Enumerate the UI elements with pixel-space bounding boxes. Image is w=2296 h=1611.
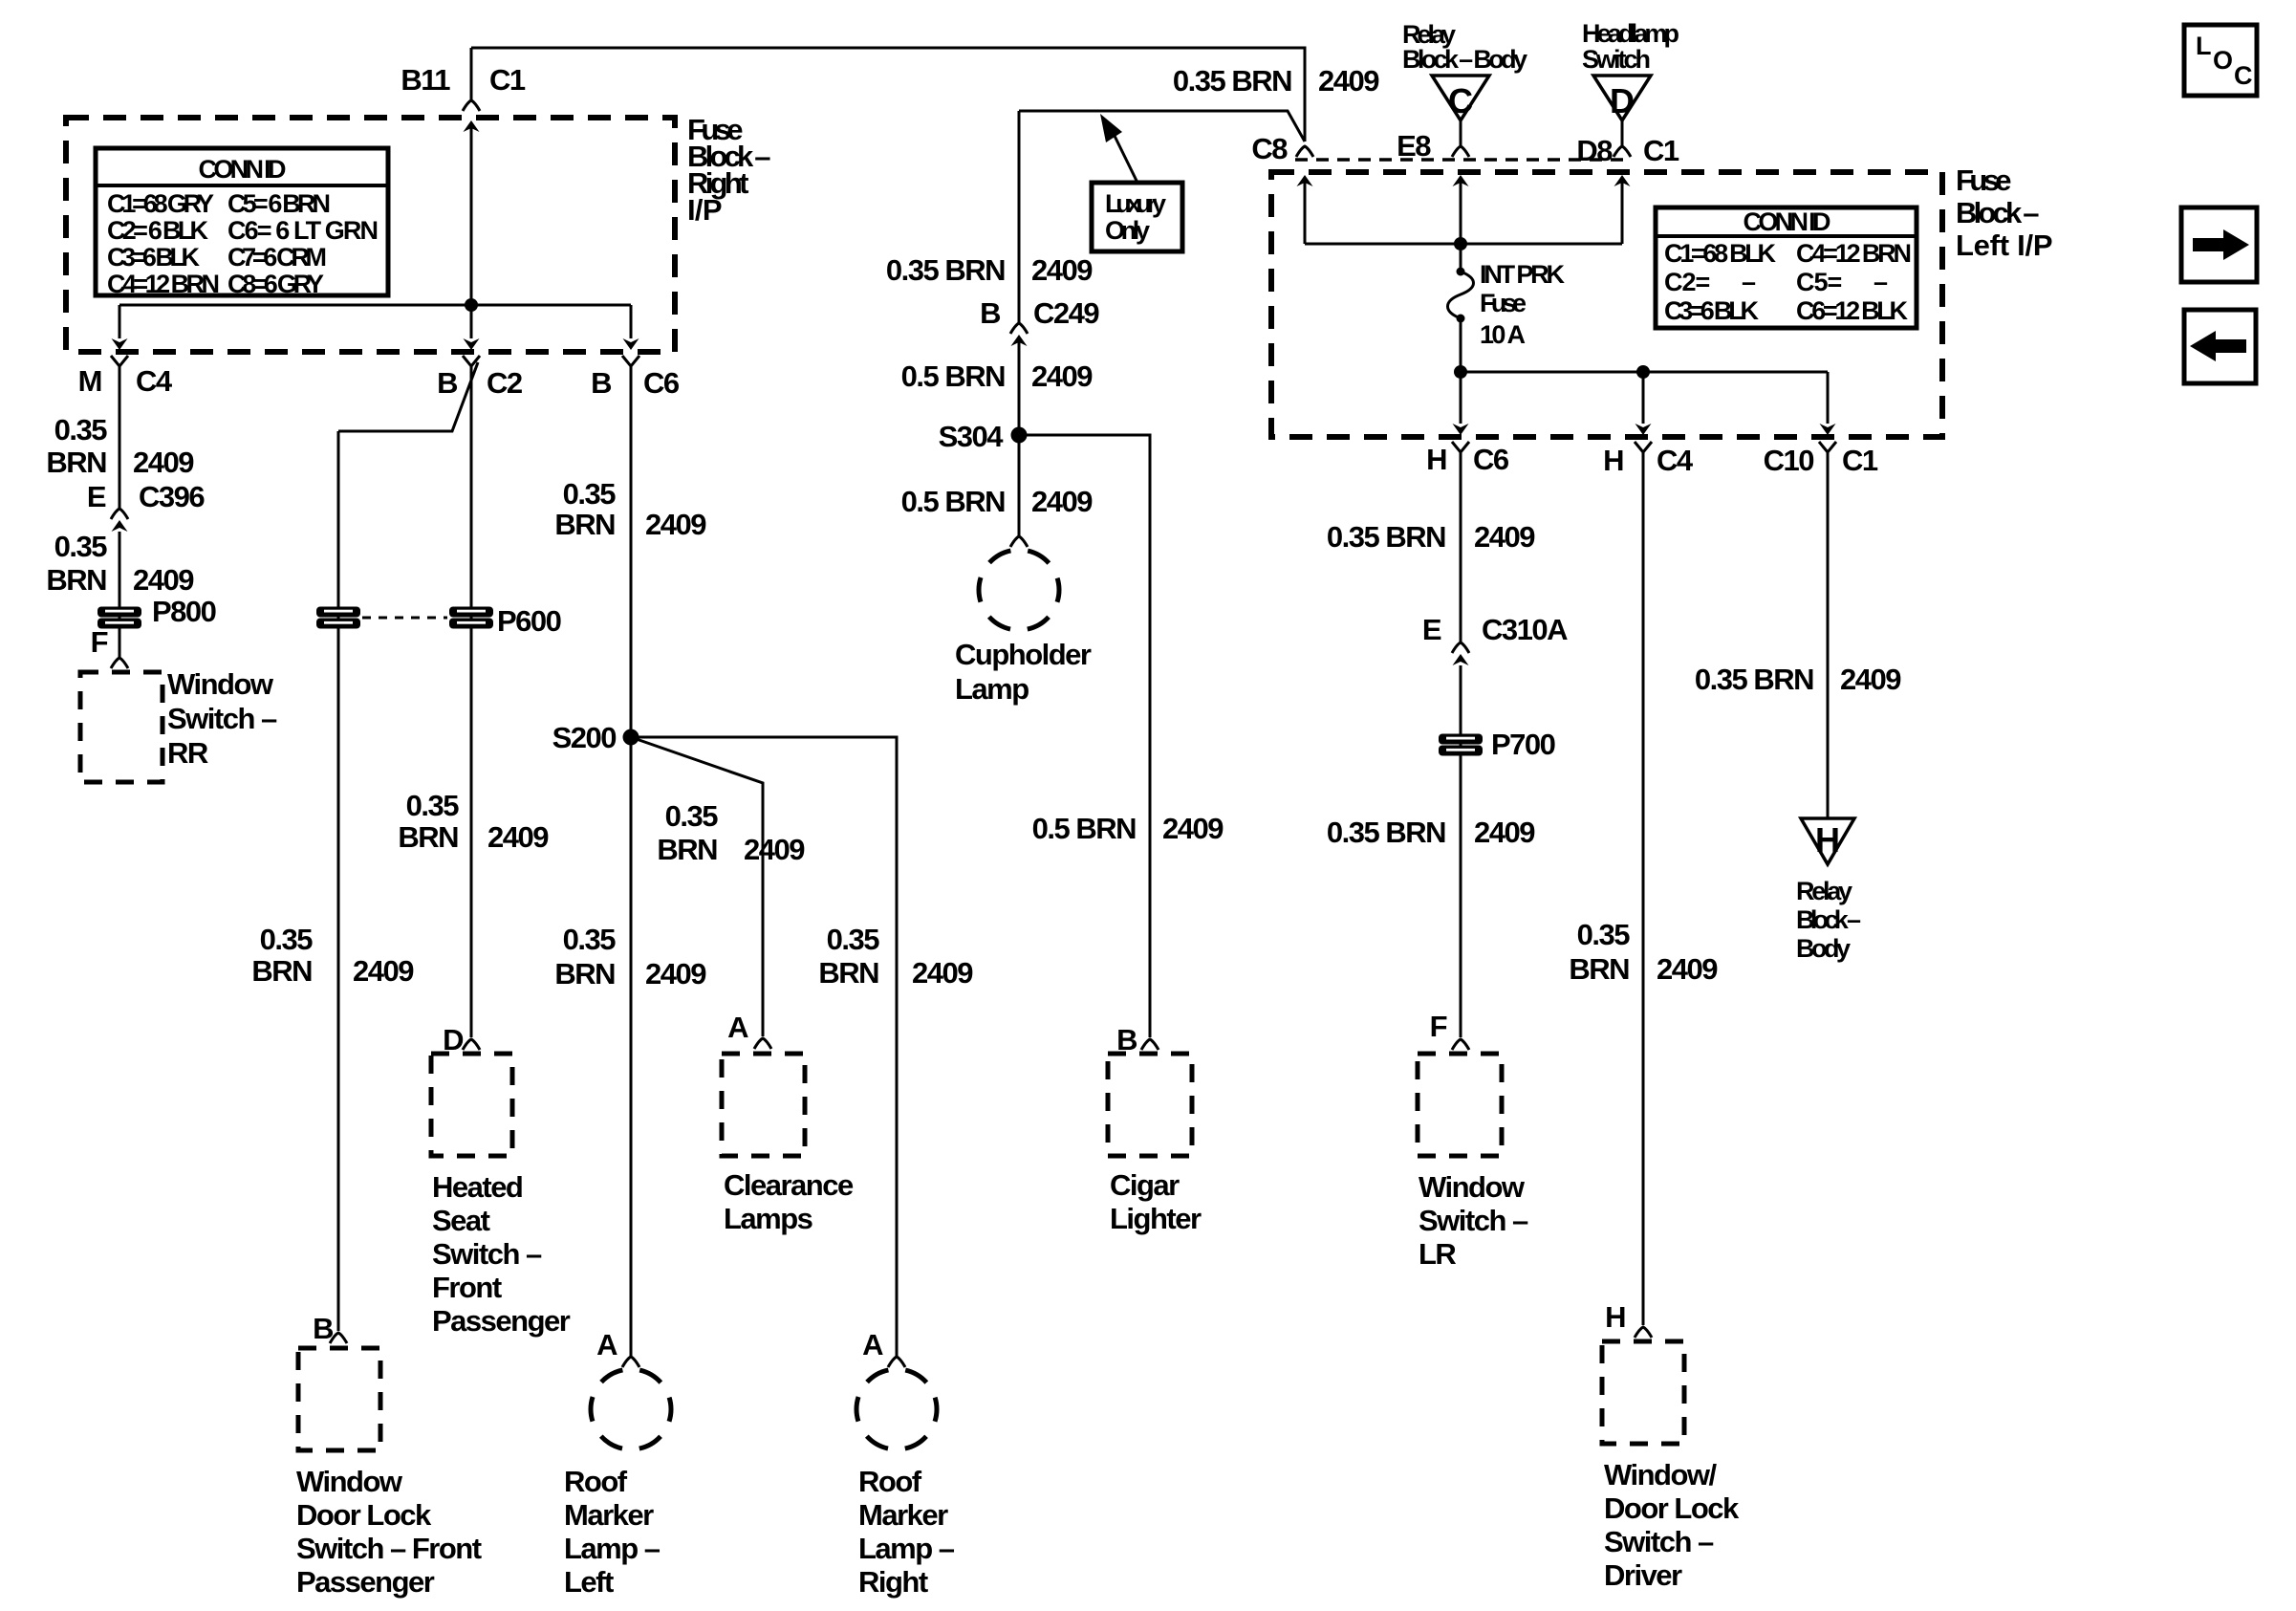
svg-text:0.5 BRN: 0.5 BRN: [901, 359, 1005, 393]
svg-text:2409: 2409: [1840, 663, 1901, 696]
svg-text:C7=6 CRM: C7=6 CRM: [227, 243, 326, 272]
svg-text:Luxury: Luxury: [1105, 189, 1166, 218]
nav arrow box: back: [2184, 310, 2256, 383]
svg-text:BRN: BRN: [251, 954, 312, 988]
fuse block - left I/P dashed outline: [1271, 172, 1942, 437]
CONN ID table (right I/P block): [96, 148, 388, 295]
junction node at fuse output bus: [1454, 365, 1467, 379]
svg-text:A: A: [596, 1328, 617, 1361]
grommet P600 left half: [316, 607, 360, 629]
svg-text:F: F: [1430, 1010, 1447, 1043]
svg-text:C3=6 BLK: C3=6 BLK: [1664, 296, 1760, 325]
svg-text:C3=6 BLK: C3=6 BLK: [107, 243, 201, 272]
INT PRK fuse 10A symbol: [1457, 268, 1465, 276]
wire: C4 pin H down to window/door lock switch driver: [1642, 463, 1645, 1325]
svg-text:S304: S304: [939, 420, 1005, 453]
svg-text:C: C: [2234, 61, 2252, 90]
svg-text:0.35: 0.35: [827, 923, 880, 956]
svg-text:0.35: 0.35: [260, 923, 314, 956]
svg-text:Body: Body: [1796, 934, 1851, 963]
wire: triangle D tail to D8: [1621, 120, 1624, 145]
junction node at C4 drop: [1636, 365, 1650, 379]
lamp: cupholder lamp: [979, 550, 1059, 630]
svg-text:Heated: Heated: [432, 1170, 522, 1204]
wire: internal bus joining C8-E8-D8: [1305, 243, 1622, 246]
connector cap at window switch RR: [111, 658, 128, 668]
svg-text:B: B: [313, 1312, 333, 1345]
svg-text:CONN ID: CONN ID: [1744, 207, 1831, 236]
svg-text:P600: P600: [497, 604, 561, 638]
arrow down at C6 exit: [623, 338, 639, 350]
arrow down at C6 exit: [1453, 424, 1469, 435]
svg-text:Switch –: Switch –: [1419, 1204, 1528, 1237]
svg-text:0.35 BRN: 0.35 BRN: [1327, 520, 1445, 554]
wire: drop at x=354 down to P600: [337, 431, 340, 1331]
arrow down at C4 exit: [112, 338, 128, 350]
svg-text:0.35: 0.35: [54, 413, 108, 446]
svg-text:C4=12 BRN: C4=12 BRN: [107, 270, 219, 298]
relay block - body triangle H (bottom): [1801, 818, 1854, 864]
svg-text:E8: E8: [1397, 129, 1431, 163]
svg-text:C1: C1: [1643, 134, 1679, 167]
svg-text:Window: Window: [296, 1465, 403, 1498]
svg-text:0.35 BRN: 0.35 BRN: [1173, 64, 1291, 98]
wire: drop to pin C10/C1: [1827, 372, 1830, 424]
LOC reference box (top right): [2184, 25, 2257, 96]
svg-text:BRN: BRN: [554, 508, 615, 541]
svg-text:Only: Only: [1105, 216, 1150, 245]
wire: drop to pin H/C6: [1460, 372, 1462, 424]
svg-text:BRN: BRN: [818, 956, 878, 990]
svg-text:C1=68 GRY: C1=68 GRY: [107, 189, 214, 218]
svg-text:E: E: [87, 480, 106, 513]
svg-text:2409: 2409: [1031, 359, 1093, 393]
dashed link between P600 grommet halves: [362, 617, 447, 620]
connector cap at window/door lock switch driver: [1635, 1327, 1652, 1338]
component box: window/door lock switch - driver: [1602, 1341, 1684, 1444]
svg-text:H: H: [1815, 820, 1840, 860]
svg-text:INT PRK: INT PRK: [1480, 260, 1566, 289]
svg-text:2409: 2409: [744, 833, 805, 866]
svg-text:Window: Window: [1419, 1170, 1526, 1204]
lamp: roof marker lamp - left: [591, 1369, 671, 1449]
luxury only callout box: [1092, 183, 1182, 251]
connector C310A inline pin E: [1452, 642, 1469, 665]
svg-text:2409: 2409: [133, 563, 194, 597]
svg-text:C5=: C5=: [1796, 268, 1842, 296]
svg-text:Driver: Driver: [1604, 1558, 1682, 1592]
wire: drop to pin B/C6: [630, 305, 633, 338]
connector cap at heated seat switch: [463, 1039, 480, 1050]
svg-text:M: M: [78, 364, 101, 398]
connector cap at roof marker lamp left: [622, 1357, 639, 1367]
svg-text:P800: P800: [152, 595, 216, 628]
arrow down at C2 exit: [464, 338, 480, 350]
svg-text:Block –: Block –: [1956, 196, 2039, 229]
svg-text:Seat: Seat: [432, 1204, 490, 1237]
svg-text:LR: LR: [1419, 1237, 1456, 1271]
wire: C8 feed down inside block: [1304, 183, 1307, 244]
svg-text:Lamp: Lamp: [955, 672, 1029, 706]
component box: cigar lighter: [1108, 1054, 1192, 1156]
connector B/C6 exit Y below block: [622, 356, 639, 377]
svg-text:Switch: Switch: [1582, 45, 1650, 74]
wire: internal bus of right I/P block: [119, 304, 631, 307]
svg-text:0.35: 0.35: [563, 923, 617, 956]
svg-text:Marker: Marker: [564, 1498, 654, 1532]
svg-text:C4=12 BRN: C4=12 BRN: [1796, 239, 1911, 268]
svg-text:2409: 2409: [645, 508, 706, 541]
svg-text:C6: C6: [1473, 443, 1509, 476]
svg-text:–: –: [1874, 268, 1888, 296]
svg-text:O: O: [2213, 46, 2232, 75]
connector C396 inline pin E: [111, 509, 128, 532]
connector cap at window switch LR: [1452, 1039, 1469, 1050]
svg-text:BRN: BRN: [1569, 952, 1629, 986]
svg-text:C5= 6 BRN: C5= 6 BRN: [227, 189, 330, 218]
connector B/C2 exit Y below block: [463, 356, 480, 377]
svg-text:Lamp –: Lamp –: [564, 1532, 661, 1565]
svg-text:Switch –: Switch –: [1604, 1525, 1714, 1558]
svg-text:C4: C4: [1657, 444, 1694, 477]
connector C8 entry arrow: [1297, 175, 1313, 186]
svg-text:D8: D8: [1576, 134, 1613, 167]
svg-text:CONN ID: CONN ID: [199, 155, 287, 184]
wire: C310A down through P700: [1460, 665, 1462, 1037]
svg-text:Right: Right: [858, 1565, 928, 1599]
svg-text:E: E: [1422, 613, 1441, 646]
component box: window door lock switch - front passenger: [298, 1348, 380, 1450]
svg-text:Front: Front: [432, 1271, 502, 1304]
svg-text:2409: 2409: [1474, 520, 1535, 554]
svg-text:BRN: BRN: [46, 446, 106, 479]
svg-text:Cigar: Cigar: [1110, 1168, 1180, 1202]
wire: C249 down to cupholder lamp: [1018, 340, 1021, 535]
wire: S304 branch to cigar lighter: [1019, 435, 1150, 1037]
svg-text:2409: 2409: [912, 956, 973, 990]
wire: top feed from C1 pin B11 to Fuse Block Left I/P pin C8: [471, 48, 1305, 142]
svg-text:Relay: Relay: [1796, 877, 1852, 905]
svg-text:Roof: Roof: [564, 1465, 628, 1498]
svg-text:A: A: [862, 1328, 883, 1361]
wire: S200 branch to roof marker lamp right: [631, 737, 897, 1356]
fuse block - right I/P dashed outline: [66, 118, 675, 352]
svg-text:BRN: BRN: [398, 820, 458, 854]
connector E8 female cap: [1452, 146, 1469, 157]
svg-text:Passenger: Passenger: [432, 1304, 571, 1338]
svg-text:2409: 2409: [133, 446, 194, 479]
wire: C396 to P800: [119, 532, 121, 657]
svg-text:Headlamp: Headlamp: [1582, 19, 1679, 48]
svg-text:2409: 2409: [487, 820, 549, 854]
luxury only callout arrow: [1112, 130, 1137, 183]
svg-text:BRN: BRN: [554, 957, 615, 991]
svg-text:A: A: [727, 1011, 748, 1044]
svg-text:C: C: [1448, 81, 1473, 120]
connector D8 female cap: [1614, 146, 1631, 157]
svg-text:C6: C6: [643, 366, 680, 400]
svg-text:Door Lock: Door Lock: [296, 1498, 432, 1532]
svg-text:C8: C8: [1251, 132, 1288, 165]
connector C1 entry arrow inside block: [464, 120, 480, 132]
svg-text:Lighter: Lighter: [1110, 1202, 1202, 1235]
svg-text:Door Lock: Door Lock: [1604, 1491, 1740, 1525]
wire: vertical drop of luxury branch at x=1066: [1018, 111, 1021, 322]
svg-text:Switch –: Switch –: [432, 1237, 542, 1271]
connector cap at cigar lighter: [1141, 1039, 1159, 1050]
splice S200: [623, 729, 639, 746]
svg-text:Passenger: Passenger: [296, 1565, 435, 1599]
svg-text:2409: 2409: [1031, 253, 1093, 287]
svg-text:Cupholder: Cupholder: [955, 638, 1092, 671]
svg-text:B: B: [591, 366, 611, 400]
wire: drop to pin B/C2: [470, 305, 473, 338]
lamp: roof marker lamp - right: [856, 1369, 937, 1449]
svg-text:0.35: 0.35: [665, 799, 719, 833]
junction node S (inside right I/P block): [465, 298, 478, 312]
component box: clearance lamps: [722, 1054, 805, 1156]
svg-text:0.35: 0.35: [54, 530, 108, 563]
svg-text:C6=12 BLK: C6=12 BLK: [1796, 296, 1909, 325]
wire: fuse output down: [1460, 318, 1462, 372]
svg-text:2409: 2409: [1318, 64, 1379, 98]
wire: C6 pin H down to window switch LR: [1460, 463, 1462, 642]
connector cap at window door lock switch: [330, 1333, 347, 1343]
CONN ID table (left I/P block): [1656, 207, 1917, 328]
wire: triangle C tail to E8: [1460, 120, 1462, 145]
svg-text:Left: Left: [564, 1565, 614, 1599]
svg-text:2409: 2409: [1162, 812, 1224, 845]
svg-text:B: B: [980, 296, 1000, 330]
svg-text:0.5 BRN: 0.5 BRN: [901, 485, 1005, 518]
connector D8 entry arrow: [1614, 175, 1631, 186]
wire: B11 drop into Fuse Block Right I/P: [470, 48, 473, 99]
svg-text:Block –: Block –: [1796, 905, 1861, 934]
svg-text:C6= 6 LT GRN: C6= 6 LT GRN: [227, 216, 378, 245]
svg-text:0.35 BRN: 0.35 BRN: [1327, 816, 1445, 849]
svg-text:Switch – Front: Switch – Front: [296, 1532, 482, 1565]
svg-text:B11: B11: [401, 63, 450, 97]
connector cap at roof marker lamp right: [888, 1357, 905, 1367]
wire: C4 pin M down to window switch RR: [119, 377, 121, 508]
svg-text:Lamps: Lamps: [724, 1202, 812, 1235]
grommet P600 right half: [449, 607, 493, 629]
svg-text:0.35 BRN: 0.35 BRN: [886, 253, 1005, 287]
wire: C1 pin C10 down to relay block body: [1827, 463, 1830, 818]
svg-text:0.35: 0.35: [406, 789, 460, 822]
svg-text:C396: C396: [139, 480, 205, 513]
svg-text:L: L: [2196, 32, 2211, 60]
svg-text:0.35: 0.35: [1577, 918, 1631, 951]
connector C8 female cap: [1296, 146, 1313, 157]
wire: lower internal bus: [1461, 371, 1828, 374]
svg-text:C249: C249: [1033, 296, 1099, 330]
svg-text:0.35 BRN: 0.35 BRN: [1695, 663, 1813, 696]
grommet P800: [97, 607, 141, 629]
svg-text:Fuse: Fuse: [1480, 289, 1527, 317]
component box: window switch - LR: [1418, 1054, 1502, 1156]
svg-text:S200: S200: [552, 721, 617, 754]
svg-text:RR: RR: [167, 736, 208, 770]
svg-text:Window: Window: [167, 667, 274, 701]
connector H/C4 exit Y below block: [1635, 442, 1652, 463]
svg-text:C4: C4: [136, 364, 173, 398]
wire: C6 pin B down to roof marker lamp left: [630, 377, 633, 1356]
nav arrow box: forward: [2181, 207, 2257, 282]
svg-text:C310A: C310A: [1482, 613, 1568, 646]
svg-text:Switch –: Switch –: [167, 702, 277, 735]
connector cap at cupholder lamp: [1010, 536, 1028, 547]
svg-text:I/P: I/P: [687, 193, 722, 227]
component box: heated seat switch - front passenger: [431, 1054, 512, 1156]
wire: E8 feed down inside block: [1460, 183, 1462, 272]
grommet P700: [1439, 734, 1483, 756]
connector C1 entry into right I/P block: female cap: [463, 100, 480, 111]
svg-text:H: H: [1605, 1300, 1625, 1334]
svg-text:C2= 6 BLK: C2= 6 BLK: [107, 216, 209, 245]
svg-text:C1=68 BLK: C1=68 BLK: [1664, 239, 1777, 268]
svg-text:0.35: 0.35: [563, 477, 617, 511]
svg-text:F: F: [91, 625, 108, 659]
svg-text:–: –: [1742, 268, 1756, 296]
svg-text:Lamp –: Lamp –: [858, 1532, 955, 1565]
connector H/C6 exit Y below block: [1452, 442, 1469, 463]
svg-text:C1: C1: [1842, 444, 1878, 477]
wire: drop to pin H/C4: [1642, 372, 1645, 424]
svg-text:2409: 2409: [1474, 816, 1535, 849]
connector C10/C1 exit Y below block: [1819, 442, 1836, 463]
svg-text:2409: 2409: [645, 957, 706, 991]
svg-text:B: B: [437, 366, 457, 400]
wire: C2 pin B straight down to heated seat switch: [470, 377, 473, 1037]
svg-text:Fuse: Fuse: [1956, 163, 2011, 197]
svg-text:BRN: BRN: [46, 563, 106, 597]
svg-text:2409: 2409: [1657, 952, 1718, 986]
connector cap at clearance lamps: [754, 1038, 771, 1049]
splice S304: [1011, 427, 1028, 444]
svg-text:Window/: Window/: [1604, 1458, 1718, 1491]
connector M/C4 exit Y below block: [111, 356, 128, 377]
connector C249 inline pin B: [1010, 323, 1028, 346]
svg-text:Block – Body: Block – Body: [1402, 45, 1527, 74]
wire: Luxury Only branch from C8 to cupholder drop: [1019, 111, 1305, 142]
svg-text:0.5 BRN: 0.5 BRN: [1032, 812, 1136, 845]
wire: D8 feed down inside block: [1621, 183, 1624, 244]
svg-text:H: H: [1426, 443, 1446, 476]
svg-text:2409: 2409: [353, 954, 414, 988]
thin dashed connector row C8-E8-D8: [1295, 158, 1630, 162]
svg-text:BRN: BRN: [657, 833, 717, 866]
svg-text:D: D: [1610, 81, 1635, 120]
svg-text:P700: P700: [1491, 728, 1555, 761]
wire: drop to pin M/C4: [119, 305, 121, 338]
svg-text:C2: C2: [487, 366, 522, 400]
svg-text:C2=: C2=: [1664, 268, 1710, 296]
svg-text:2409: 2409: [1031, 485, 1093, 518]
svg-text:H: H: [1603, 444, 1623, 477]
svg-text:C8=6 GRY: C8=6 GRY: [227, 270, 324, 298]
svg-text:10 A: 10 A: [1480, 320, 1526, 349]
svg-text:C10: C10: [1764, 444, 1814, 477]
svg-text:Clearance: Clearance: [724, 1168, 854, 1202]
wire: C2 slash branch to window door lock switch drop: [338, 362, 478, 431]
component box: window switch - RR: [80, 672, 162, 782]
svg-text:C1: C1: [489, 63, 526, 97]
junction node at E8 bus: [1454, 237, 1467, 250]
svg-text:Marker: Marker: [858, 1498, 948, 1532]
svg-text:Left I/P: Left I/P: [1956, 229, 2052, 262]
arrow down at C10 exit: [1820, 424, 1836, 435]
wire: S200 diagonal branch to clearance lamps: [631, 737, 763, 1036]
svg-text:Roof: Roof: [858, 1465, 922, 1498]
wire: B11 feed inside block down to junction: [470, 128, 473, 305]
arrow down at C4 exit: [1635, 424, 1652, 435]
connector E8 entry arrow: [1453, 175, 1469, 186]
